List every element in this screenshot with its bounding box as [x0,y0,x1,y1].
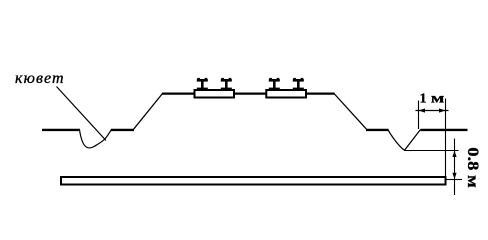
arrowhead up of 0.8 м [452,151,456,158]
svg-text:0.8 м: 0.8 м [464,147,481,188]
ground line right [421,129,468,131]
roadbed top line left [162,92,194,94]
leader line from label to ditch [57,87,107,141]
left berm [111,129,134,131]
rail 4 on sleeper 2 [293,78,304,90]
sleeper 2 [266,90,306,98]
ground line left [42,129,80,131]
roadbed top line right [307,92,335,94]
right embankment slope [334,94,366,130]
cable top extension line [447,179,463,181]
left ditch profile [80,129,112,148]
sleeper 1 [195,90,235,98]
dimension line 1 м [416,110,449,112]
extension line right of dimension 1 м (continues down to cable) [445,99,447,186]
extension line left of dimension 1 м [418,101,420,130]
buried cable duct rectangle [61,177,446,185]
arrowhead down of 0.8 м [452,173,456,180]
svg-text:м: м [431,91,444,106]
svg-text:кювет: кювет [15,70,65,87]
ditch bottom extension line [405,150,459,152]
svg-text:1: 1 [420,92,427,107]
arrowhead right of 1 м [439,108,446,112]
rail 2 on sleeper 1 [221,78,232,90]
right ditch profile [388,130,421,151]
rail 1 on sleeper 1 [197,78,208,90]
track bed line between sleepers [235,92,267,94]
right berm [366,129,389,131]
dimension line 0.8 м [454,139,456,196]
left embankment slope [134,94,163,130]
rail 3 on sleeper 2 [269,78,280,90]
arrowhead left of 1 м [419,108,426,112]
